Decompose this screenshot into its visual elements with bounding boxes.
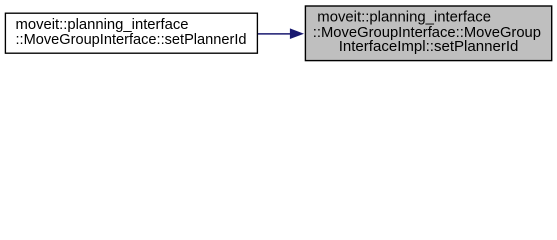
svg-text:InterfaceImpl::setPlannerId: InterfaceImpl::setPlannerId (339, 38, 519, 55)
svg-text:moveit::planning_interface: moveit::planning_interface (317, 8, 491, 25)
node: moveit::planning_interface::MoveGroupInterface::MoveGroupInterfaceImpl::setPlannerId (current node, grey) (305, 6, 551, 61)
svg-text:::MoveGroupInterface::setPlann: ::MoveGroupInterface::setPlannerId (16, 31, 247, 48)
node: moveit::planning_interface::MoveGroupInterface::setPlannerId (caller box) (5, 13, 257, 53)
edge: call arrow from caller to callee (258, 28, 304, 39)
